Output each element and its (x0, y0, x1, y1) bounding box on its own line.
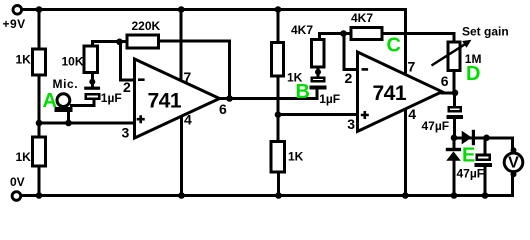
svg-text:3: 3 (122, 124, 130, 140)
svg-text:4: 4 (184, 111, 192, 127)
wire C3 bottom plate to node E (453, 118, 456, 138)
svg-text:10K: 10K (62, 55, 84, 69)
terminal 0V (12, 192, 21, 201)
junction node E at C4 (483, 135, 490, 142)
svg-text:1µF: 1µF (101, 91, 122, 105)
U2 minus sign (362, 68, 369, 71)
wire R5 bottom through crossing to node B divider (277, 77, 280, 116)
resistor R1 1K (33, 49, 46, 75)
resistor R4 220K (127, 35, 158, 48)
diode D2 (446, 148, 461, 151)
svg-text:Mic.: Mic. (53, 77, 79, 91)
junction node on +9V rail at pin 7 U1 (178, 6, 185, 13)
junction node 0V at C4 (482, 192, 489, 199)
junction node output U1 (226, 95, 233, 102)
wire pin 4 of U1 to 0V rail (180, 114, 183, 196)
voltmeter V (504, 153, 523, 172)
wire R6 bottom to 0V rail (277, 173, 280, 196)
svg-text:47µF: 47µF (422, 119, 450, 133)
svg-text:7: 7 (408, 58, 416, 74)
svg-text:Set gain: Set gain (462, 25, 509, 39)
svg-text:0V: 0V (10, 175, 25, 189)
voltmeter bottom stud (511, 171, 517, 177)
wire 220K right lead down to output node of U1 (159, 41, 230, 99)
junction node on +9V rail at R5 (275, 6, 282, 13)
wire pin 2 of U2 from feedback node (344, 34, 358, 70)
svg-text:1K: 1K (16, 52, 32, 66)
svg-text:4: 4 (408, 106, 416, 122)
wire left riser from +9V node to R1 (38, 10, 41, 49)
svg-text:A: A (43, 90, 57, 112)
svg-text:4K7: 4K7 (291, 23, 313, 37)
junction node 0V at R6 (275, 192, 282, 199)
U1 plus sign (137, 115, 145, 123)
wire C4 top lead to node E wire (484, 138, 487, 155)
svg-text:47µF: 47µF (457, 167, 485, 181)
wire divider node B to pin 3 of U2 (278, 113, 358, 116)
microphone Mic (57, 94, 70, 107)
capacitor C2 1uF hollow plate (312, 78, 324, 81)
resistor R6 1K (271, 142, 285, 173)
svg-text:E: E (462, 145, 475, 167)
wire stage-2 divider riser from +9V rail to R5 (277, 10, 280, 43)
junction node C2 top (315, 69, 321, 75)
voltmeter top stud (511, 147, 517, 153)
wire output node down to C3 (453, 93, 456, 107)
wire R2 bottom to 0V rail (38, 167, 41, 196)
junction node 0V at R2 (36, 192, 43, 199)
svg-text:V: V (508, 155, 519, 172)
junction node 0V at pin 4 U2 (402, 192, 409, 199)
svg-text:2: 2 (345, 70, 353, 86)
svg-text:C: C (387, 34, 401, 56)
wire microphone to C1 bottom plate (72, 100, 95, 106)
wire pin 4 of U2 to 0V rail (404, 108, 407, 196)
svg-text:1K: 1K (16, 150, 32, 164)
wire R1 bottom to divider node (38, 76, 41, 123)
wire node E down to diode D2 (453, 138, 456, 149)
svg-text:1µF: 1µF (319, 92, 340, 106)
terminal +9V (13, 6, 22, 15)
wire bottom 0V rail with corner up to voltmeter (22, 172, 513, 196)
svg-text:741: 741 (148, 90, 182, 113)
resistor R3 10K (84, 46, 98, 73)
resistor R8 4K7 (351, 28, 382, 40)
potentiometer VR1 1M (448, 42, 460, 70)
capacitor C3 47uF hollow plate (449, 107, 461, 111)
svg-text:+9V: +9V (3, 17, 26, 31)
wire C1 top plate through junction to R3 (91, 75, 94, 88)
wire pin 7 of U1 to +9V rail (180, 10, 183, 82)
U1 minus sign (138, 78, 145, 81)
wire R7 top to feedback node of U2 (320, 34, 351, 40)
wire divider node to R6 (277, 115, 280, 141)
op-amp U2 741 (358, 52, 443, 131)
junction node mic to A (65, 120, 72, 127)
junction node 0V at pin 4 U1 (178, 192, 185, 199)
wire top +9V rail with corner down to pin 7 of U2 (22, 10, 406, 75)
svg-text:4K7: 4K7 (351, 11, 373, 25)
wire 1M pot bottom to output node of U2 (453, 71, 456, 93)
wire node A to pin 3 of U1 (39, 122, 135, 125)
junction node C1 top (89, 79, 95, 85)
VR1 arrow (432, 44, 466, 65)
svg-text:741: 741 (373, 82, 407, 105)
resistor R2 1K (33, 137, 46, 166)
wire pin 2 of U1 from feedback node (121, 42, 135, 80)
wire output of U1 to C2 (220, 91, 318, 99)
wire 4K7 feedback to 1M pot top (383, 34, 455, 42)
svg-text:7: 7 (184, 69, 192, 85)
capacitor C2 1uF solid plate (310, 86, 327, 90)
capacitor C1 1uF solid plate (84, 87, 100, 90)
junction node B divider (275, 111, 282, 118)
svg-text:2: 2 (123, 79, 131, 95)
resistor R7 4K7 (311, 40, 324, 67)
svg-text:6: 6 (441, 73, 449, 89)
wire divider node to R2 (38, 123, 41, 137)
svg-text:6: 6 (219, 101, 227, 117)
svg-text:B: B (296, 81, 310, 103)
junction node feedback U1 (116, 39, 123, 46)
svg-text:D: D (466, 63, 480, 85)
capacitor C1 1uF hollow plate (86, 94, 99, 99)
capacitor C4 47uF solid plate (475, 163, 493, 167)
junction node 0V at D2 (451, 192, 458, 199)
svg-text:1K: 1K (288, 150, 304, 164)
wire microphone lead down to node A wire (67, 111, 70, 123)
U2 plus sign (361, 111, 369, 119)
resistor R5 1K (272, 42, 284, 76)
wire output of U2 to node (442, 91, 455, 94)
wire node E to voltmeter top (454, 138, 513, 152)
capacitor C4 47uF hollow plate (477, 155, 490, 160)
junction node output U2 (452, 90, 459, 97)
svg-text:3: 3 (347, 116, 355, 132)
junction node E at C3 (451, 135, 458, 142)
junction node A divider (36, 120, 43, 127)
wire C2 top plate to R7 (317, 69, 320, 78)
junction node on +9V rail at R1 (36, 6, 43, 13)
diode D1 (462, 131, 472, 145)
wire R3 top to 220K feedback node (93, 42, 127, 46)
svg-text:220K: 220K (132, 19, 161, 33)
op-amp U1 741 (135, 59, 220, 138)
capacitor C3 47uF solid plate (447, 115, 464, 119)
wire C4 bottom lead to 0V rail (484, 166, 487, 196)
wire diode D2 anode to 0V rail (453, 160, 456, 196)
junction node feedback U2 (340, 30, 347, 37)
